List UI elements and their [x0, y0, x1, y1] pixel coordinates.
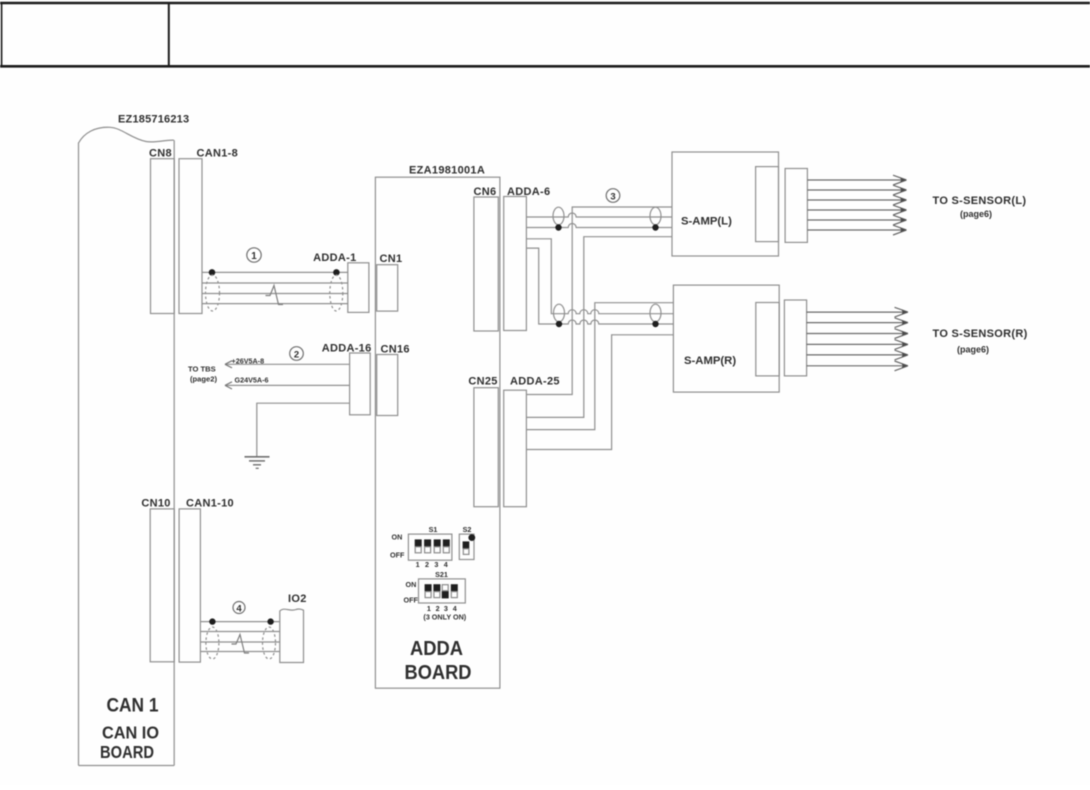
svg-text:ON: ON	[406, 580, 417, 589]
shield dot L right	[652, 224, 658, 230]
connector CN6	[474, 197, 498, 331]
svg-text:1: 1	[251, 251, 257, 262]
CAN IO board outline	[79, 127, 175, 765]
wire L fourth	[526, 237, 672, 418]
circled number 4	[233, 602, 245, 615]
cable 1 break symbol	[266, 286, 284, 305]
shield dot R left	[556, 321, 562, 327]
svg-text:ADDA-1: ADDA-1	[313, 252, 356, 264]
cable 4 break symbol	[232, 635, 250, 654]
S-AMP(L) inner connector	[756, 167, 779, 242]
circled number 2	[290, 347, 304, 361]
svg-text:1: 1	[416, 560, 420, 569]
wire R shield	[526, 303, 673, 430]
circled number 3	[606, 189, 620, 203]
ground wire	[257, 403, 350, 456]
connector CN1	[377, 265, 398, 311]
ADDA board outline	[375, 177, 500, 688]
svg-text:IO2: IO2	[288, 593, 307, 605]
wire L pair 2	[526, 224, 672, 228]
connector CAN1-8	[179, 159, 202, 314]
connector CN16	[377, 355, 398, 416]
connector ADDA-6	[504, 197, 527, 331]
connector ADDA-1	[348, 263, 369, 313]
svg-text:G24V5A-6: G24V5A-6	[235, 376, 269, 385]
connector CN25	[474, 388, 498, 507]
svg-text:3: 3	[610, 191, 615, 202]
svg-text:CN10: CN10	[141, 498, 170, 510]
svg-text:2: 2	[425, 560, 429, 569]
cable 1 wire b	[202, 293, 348, 295]
svg-text:4: 4	[236, 604, 242, 615]
cable 1 drain wire	[202, 271, 348, 273]
DIP switch S21	[419, 579, 466, 603]
svg-text:S1: S1	[429, 525, 438, 534]
DIP switch S2	[459, 534, 475, 559]
svg-text:BOARD: BOARD	[100, 742, 154, 762]
svg-text:CN6: CN6	[474, 186, 497, 198]
svg-text:CAN1-8: CAN1-8	[197, 148, 239, 160]
svg-text:CN25: CN25	[468, 376, 497, 388]
svg-text:S2: S2	[463, 525, 472, 534]
shield ellipse R right	[650, 304, 661, 322]
S-AMP(R) box	[673, 285, 779, 392]
label S1	[429, 525, 438, 534]
svg-text:3: 3	[434, 560, 438, 569]
cable 4 wire c	[200, 651, 279, 653]
label 1 2 3 4 (S1)	[416, 560, 448, 569]
svg-text:BOARD: BOARD	[405, 662, 472, 684]
label TO S-SENSOR(L)	[933, 195, 1027, 219]
svg-text:OFF: OFF	[390, 551, 405, 560]
S-AMP(L) output arrows	[807, 175, 906, 235]
connector CAN1-10	[179, 509, 200, 662]
svg-text:TO TBS: TO TBS	[188, 364, 216, 373]
S-AMP(R) output arrows	[807, 307, 908, 371]
cable 4 wire a	[200, 631, 279, 633]
shield ellipse L right	[650, 207, 661, 225]
svg-text:+26V5A-8: +26V5A-8	[232, 356, 265, 365]
svg-text:CN8: CN8	[149, 148, 172, 160]
S-AMP(L) mating connector	[785, 169, 807, 243]
junction dot left (cable 4)	[209, 618, 215, 624]
svg-text:CN16: CN16	[381, 344, 410, 356]
svg-text:TO S-SENSOR(R): TO S-SENSOR(R)	[933, 328, 1028, 340]
label TO S-SENSOR(R)	[933, 328, 1028, 355]
wire +26V5A-8	[225, 361, 350, 368]
svg-text:(page6): (page6)	[960, 209, 992, 219]
svg-text:ADDA-16: ADDA-16	[322, 343, 372, 355]
label TO TBS (page2)	[188, 364, 217, 383]
cable 1 shield ellipse left	[206, 275, 220, 311]
connector CN10	[150, 509, 174, 662]
cable 1 shield ellipse right	[330, 275, 343, 311]
shield ellipse L left	[553, 207, 564, 225]
svg-text:S21: S21	[435, 570, 448, 579]
wire R pair 1	[526, 239, 673, 314]
svg-text:ADDA: ADDA	[410, 638, 463, 660]
svg-text:CN1: CN1	[380, 253, 403, 265]
cable 1 wire a	[202, 282, 348, 284]
cable 4 shield ellipse left	[206, 627, 219, 659]
svg-text:S-AMP(L): S-AMP(L)	[681, 216, 732, 228]
junction dot right (cable 4)	[267, 618, 273, 624]
label 1 2 3 4 (S21)	[427, 604, 457, 613]
connector ADDA-25	[504, 390, 527, 507]
svg-text:(page2): (page2)	[190, 374, 217, 383]
wire L pair 1	[526, 213, 672, 217]
svg-text:EZA1981001A: EZA1981001A	[409, 165, 485, 177]
connector IO2	[280, 609, 304, 663]
connector CN8	[151, 159, 175, 314]
S-AMP(L) box	[672, 152, 779, 256]
svg-text:CAN 1: CAN 1	[107, 695, 159, 717]
shield dot L left	[555, 224, 561, 230]
title block table	[0, 2, 1090, 66]
svg-text:ON: ON	[392, 533, 403, 542]
svg-text:TO S-SENSOR(L): TO S-SENSOR(L)	[933, 195, 1027, 207]
svg-text:S-AMP(R): S-AMP(R)	[684, 355, 736, 367]
svg-text:CAN1-10: CAN1-10	[186, 498, 234, 510]
cable 4 shield ellipse right	[263, 627, 276, 659]
S-AMP(R) inner connector	[756, 303, 779, 376]
connector ADDA-16	[350, 353, 371, 415]
svg-text:(page6): (page6)	[957, 345, 989, 355]
svg-text:OFF: OFF	[404, 595, 419, 604]
cable 4 drain wire	[200, 621, 279, 623]
cable 1 wire c	[202, 303, 348, 305]
DIP switch S1	[408, 534, 452, 560]
wire G24V5A-6	[225, 382, 350, 389]
svg-text:ADDA-6: ADDA-6	[507, 186, 550, 198]
cable 4 wire b	[200, 641, 279, 643]
junction dot left (cable 1)	[209, 269, 216, 276]
svg-text:(3 ONLY ON): (3 ONLY ON)	[423, 613, 466, 622]
junction dot right (cable 1)	[333, 269, 340, 276]
circled number 1	[247, 248, 261, 262]
svg-text:2: 2	[294, 349, 299, 360]
svg-text:CAN IO: CAN IO	[102, 723, 159, 743]
ground symbol	[245, 457, 270, 469]
S-AMP(R) mating connector	[784, 300, 806, 376]
wire R pair 2	[526, 248, 673, 324]
shield ellipse R left	[554, 304, 565, 322]
svg-text:4: 4	[444, 560, 448, 569]
svg-text:EZ185716213: EZ185716213	[118, 114, 189, 126]
svg-text:ADDA-25: ADDA-25	[510, 376, 560, 388]
wire R fourth	[526, 335, 673, 450]
shield dot R right	[652, 321, 658, 327]
wire L shield	[526, 207, 672, 395]
